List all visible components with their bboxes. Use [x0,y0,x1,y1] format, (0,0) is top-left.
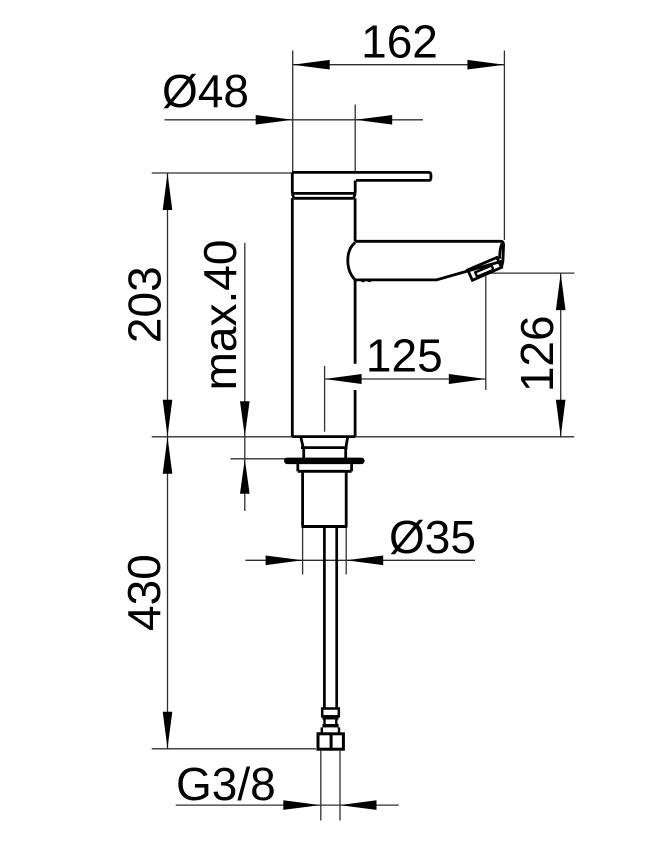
flange base right [350,464,353,471]
svg-text:203: 203 [118,266,170,343]
faucet cap top and lever [292,172,431,180]
dim 126 arrow down [556,400,566,437]
svg-text:125: 125 [366,329,443,381]
dim max.40 arrow up [240,459,250,494]
svg-text:126: 126 [511,315,563,392]
hose left [323,528,326,709]
dim G3/8 arrow left [283,800,320,810]
extension line right of 162 [503,51,505,241]
deck top line [152,436,575,438]
spout left arc [348,243,355,280]
hose right [335,528,338,709]
dim O35 arrow left [266,556,303,566]
shank right [345,471,348,526]
body bottom edge [292,435,355,438]
svg-text:430: 430 [118,554,170,631]
shank bottom [302,525,348,528]
dim O48 arrow left [256,115,293,125]
body right edge mid [354,280,357,364]
hex nut G3/8 [318,734,343,749]
svg-text:max.40: max.40 [194,240,246,391]
spout bottom [355,261,503,280]
extension line O35 left [302,528,304,575]
dim 430 arrow down [163,712,173,749]
dim 203 line [167,173,169,437]
shank left [301,471,304,526]
aerator inner [475,266,493,277]
dim O35 line [245,559,475,561]
svg-text:162: 162 [361,15,438,67]
aerator outer [468,258,502,281]
deck bottom line [231,458,301,460]
dim 126 arrow up [556,273,566,310]
cap-body taper right [354,193,356,198]
extension line 125 right [485,274,487,390]
spout-body joint tick right [368,280,371,283]
spout tip inner curve [500,243,502,258]
hose neck right [335,716,337,727]
dim 430 arrow up [163,437,173,474]
mount section B left [302,448,305,458]
flange base left [296,464,299,471]
hose collar [322,709,339,717]
cap right edge [354,180,357,193]
pipe tail left [320,750,322,821]
svg-text:Ø48: Ø48 [162,65,249,117]
extension line 126 top [490,272,575,274]
dim 125 arrow right [449,374,486,384]
dim 203 arrow down [163,400,173,437]
svg-text:Ø35: Ø35 [389,511,476,563]
dim O48 line [165,119,424,121]
extension line top of 203 [152,172,293,174]
hose collar lower band [322,716,338,719]
mount section A bottom [301,446,348,449]
dim 126 line [560,273,562,437]
cap left edge [291,172,294,193]
dim 430 line [167,437,169,749]
flange base bottom [298,470,352,473]
hose neck left [323,716,325,727]
dim G3/8 line [176,804,399,806]
pipe tail right [339,750,341,821]
cap bottom line [292,192,355,195]
deck flange bar [284,458,365,465]
extension line O35 right [345,528,347,575]
mount section A left [301,438,303,448]
dim 203 arrow up [163,173,173,210]
body right edge lower [354,390,357,437]
axis tick at 125 left [324,366,326,432]
dim 162 arrow left [293,60,330,70]
dim O48 arrow right [355,115,392,125]
dim 162 line [293,64,505,66]
spout top [355,241,504,267]
body left edge [291,198,294,436]
spout-body joint tick left [361,280,364,283]
extension line left of 162 [292,51,294,172]
cap-body taper left [292,193,294,198]
svg-text:G3/8: G3/8 [176,758,276,810]
dim 125 line [325,378,486,380]
dim max.40 arrow down [240,401,250,436]
dim max.40 leader upper [244,243,246,511]
body right edge upper [354,198,357,241]
dim O35 arrow right [346,556,383,566]
hex nut middle line [330,734,333,749]
extension line O48 right [354,105,356,172]
extension line bottom of 430 [152,748,316,750]
mount section B right [344,448,347,458]
mount section A right [346,438,348,448]
washer band [322,724,338,727]
groove line [294,197,354,200]
dim 162 arrow right [467,60,504,70]
washer wall right [338,727,340,733]
washer wall left [321,727,323,733]
dim 125 arrow left [325,374,362,384]
dim G3/8 arrow right [340,800,377,810]
